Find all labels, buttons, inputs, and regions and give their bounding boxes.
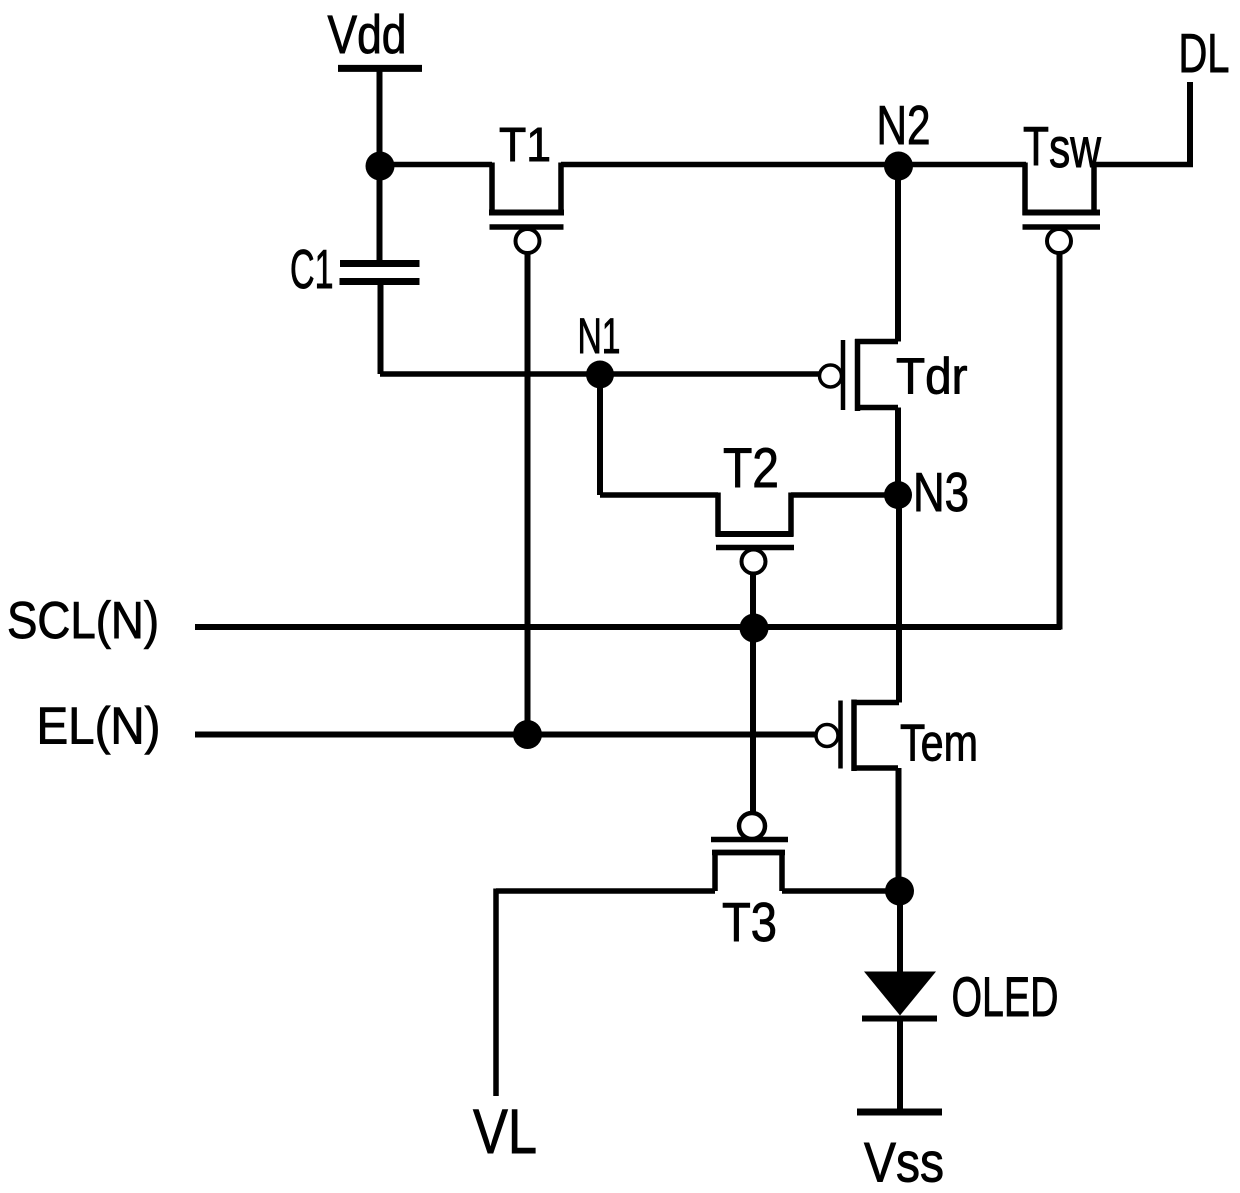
- wire T1 gate down to EL(N): [525, 253, 531, 735]
- capacitor C1: [340, 264, 420, 282]
- power rail Vdd: [338, 65, 422, 72]
- svg-text:VL: VL: [473, 1097, 537, 1167]
- wire Tdr drain to N3: [895, 408, 901, 496]
- node N2: [884, 152, 913, 181]
- ground rail Vss: [857, 1109, 942, 1116]
- wire T3 drain to OLED node: [782, 888, 900, 894]
- wire Tsw drain to DL: [1094, 162, 1193, 168]
- net SCL(N) wire: [195, 624, 1061, 630]
- svg-text:EL(N): EL(N): [37, 698, 161, 756]
- wire C1 to N1 to Tdr gate: [380, 371, 820, 377]
- svg-text:N2: N2: [877, 94, 931, 156]
- node N1: [586, 361, 614, 389]
- svg-text:Vss: Vss: [864, 1131, 944, 1193]
- wire Vdd rail down to C1: [377, 68, 383, 263]
- wire Tem drain down to T3 node: [896, 768, 902, 891]
- label Tsw: [1023, 115, 1101, 179]
- wire Tsw gate down to SCL(N): [1057, 253, 1063, 630]
- transistor Tem: [816, 700, 899, 772]
- net EL(N) wire: [195, 732, 816, 738]
- wire N1 down: [597, 374, 603, 495]
- svg-text:N3: N3: [913, 461, 969, 523]
- svg-text:C1: C1: [290, 238, 334, 300]
- wire N2 down to Tdr source: [895, 166, 901, 342]
- wire DL vertical: [1187, 82, 1193, 167]
- svg-text:N1: N1: [578, 308, 621, 364]
- transistor T2: [716, 493, 794, 574]
- transistor T3: [711, 813, 788, 891]
- svg-text:sw: sw: [1049, 116, 1101, 179]
- wire T1 drain to N2 to Tsw: [561, 162, 1026, 168]
- svg-text:Vdd: Vdd: [328, 5, 407, 65]
- svg-text:DL: DL: [1179, 22, 1230, 84]
- node junction SCL/T2-T3 gate: [740, 614, 769, 643]
- wire node down to OLED anode: [897, 891, 903, 974]
- wire N1 to T2 source: [600, 492, 718, 498]
- svg-text:T1: T1: [499, 119, 551, 172]
- svg-text:T2: T2: [723, 436, 779, 499]
- node junction T3/Tem/OLED: [885, 877, 914, 906]
- node junction Vdd/C1/T1: [366, 152, 395, 181]
- wire junction to T1 source: [380, 162, 492, 168]
- transistor T1: [489, 163, 564, 254]
- svg-text:OLED: OLED: [952, 965, 1059, 1028]
- transistor Tdr: [820, 339, 899, 411]
- wire OLED cathode down to Vss: [897, 1019, 903, 1113]
- node junction EL/T1 gate: [513, 720, 542, 749]
- wire N3 down to Tem source: [896, 495, 902, 703]
- svg-text:SCL(N): SCL(N): [7, 592, 159, 650]
- wire VL to T3 source: [496, 888, 715, 894]
- wire VL vertical: [493, 889, 499, 1097]
- transistor Tsw: [1023, 163, 1101, 254]
- diode OLED: [862, 972, 937, 1019]
- wire T2 gate down to T3 gate: [750, 574, 756, 815]
- svg-text:Tem: Tem: [900, 715, 978, 773]
- svg-text:T3: T3: [722, 891, 777, 953]
- wire C1 bottom down: [378, 282, 384, 375]
- svg-text:Tdr: Tdr: [896, 348, 968, 405]
- svg-text:T: T: [1023, 115, 1049, 177]
- node N3: [884, 481, 912, 509]
- wire T2 drain to N3: [791, 492, 898, 498]
